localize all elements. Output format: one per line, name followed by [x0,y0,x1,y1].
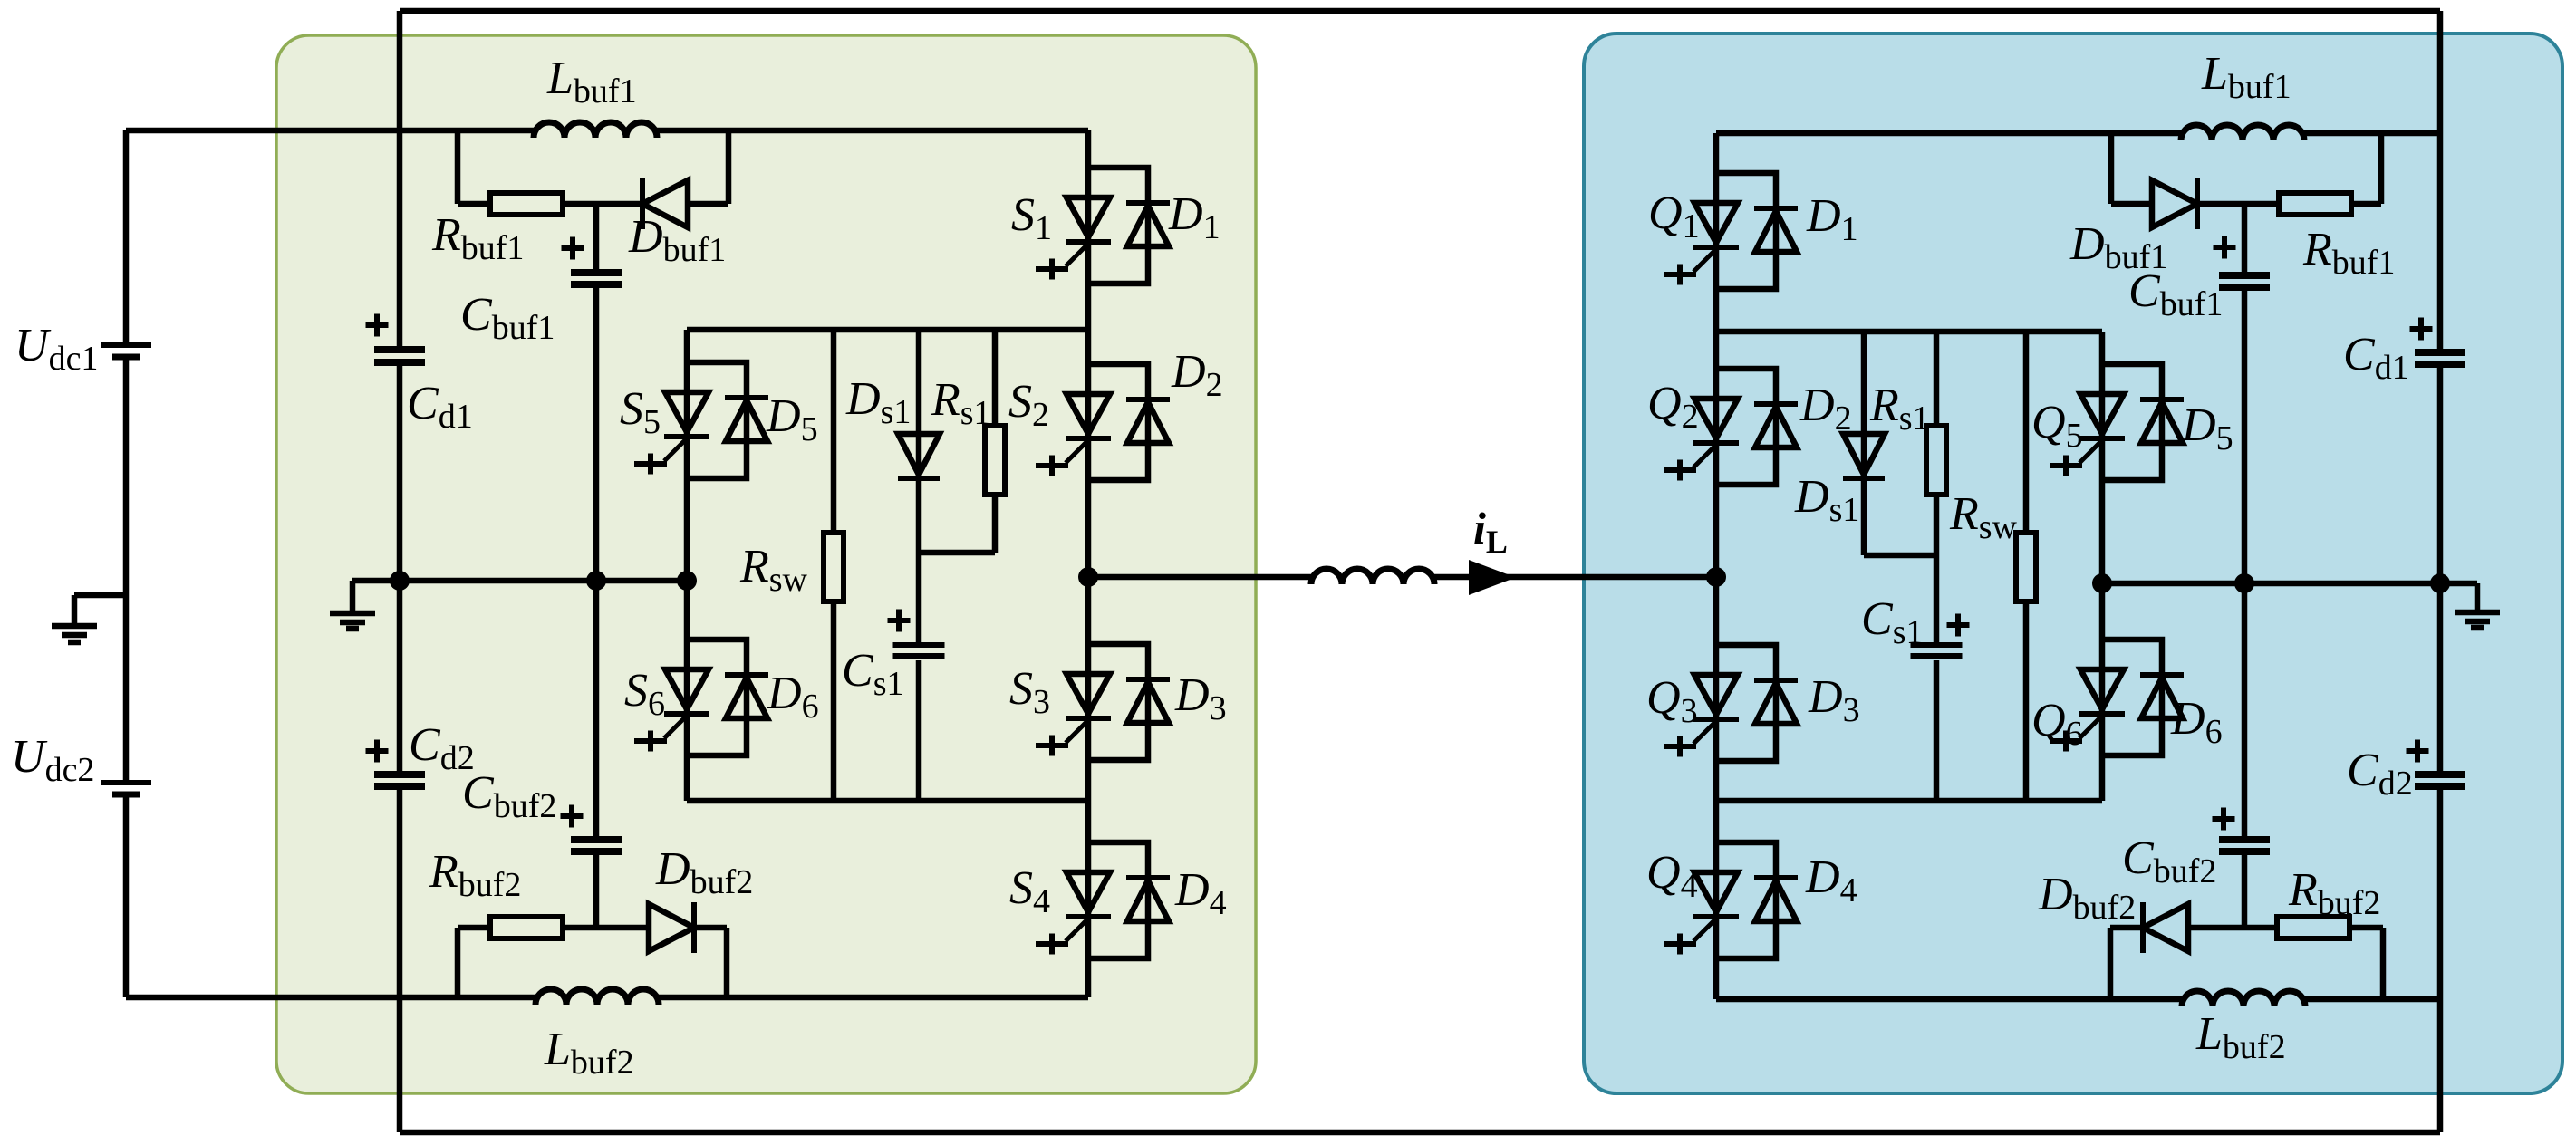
diode D_buf2 (right) [2140,902,2146,953]
ground (left mid rail) [330,611,375,617]
diode D6 (right) [2140,672,2184,678]
wire snubber row left-bottom [563,925,649,931]
wire S3 parallel branch [1088,644,1148,760]
node output (right bridge midpoint) [1706,567,1726,587]
diode D6 (left) [725,672,768,678]
svg-text:iL: iL [1473,503,1508,560]
wire C_buf1 lead (right) [2242,204,2248,272]
label + C_d1 (right) [2410,326,2433,332]
wire Q3 parallel branch [1716,645,1776,761]
wire Q5 parallel branch [2102,364,2162,480]
node C_d rail / mid rail (left) [390,571,410,591]
capacitor C_d2 (left) [374,771,425,778]
switch S6 [665,669,709,709]
capacitor C_d1 (right) [2415,349,2465,356]
node C_d rail / mid rail (right) [2430,573,2450,593]
diode D1 (left) [1126,200,1170,206]
wire S2 parallel branch [1088,364,1148,480]
wire ground tail mid-right [2440,581,2477,587]
wire S6 parallel branch [687,640,747,755]
converter box right (blue) [1584,34,2562,1093]
wire top bus left [126,128,534,134]
wire bottom bus right [1716,996,2182,1003]
diode D_buf2 (left) [691,902,697,953]
resistor R_sw (left) [824,533,844,601]
wire R_buf2 branch drop (left) [455,928,461,997]
capacitor C_buf1 (left) [571,269,622,276]
switch Q5 [2080,394,2124,434]
wire outer top bus [400,8,2440,14]
switch Q1 [1694,203,1738,243]
wire Q6 parallel branch [2102,640,2162,755]
resistor R_buf1 (left) [490,193,563,215]
switch S1 [1066,197,1110,237]
label + C_s1 (left) [888,618,911,623]
wire dc-link rail right (through C_d1/C_d2) [2437,11,2444,349]
label + C_buf2 (left) [561,813,584,819]
wire S5-S6 rail [684,330,690,801]
diode D1 (right) [1754,206,1798,211]
capacitor C_buf1 (right) [2219,272,2270,279]
svg-text:Udc2: Udc2 [11,731,94,789]
wire bridge rail left (S1-S4) [1085,130,1092,997]
wire R_buf1 to top bus (right) [2350,201,2381,207]
capacitor C_s1 (left) [893,642,945,648]
wire R_buf1 branch drop (left) [455,130,461,204]
wire U_dc1 rail [123,130,130,342]
svg-text:Udc1: Udc1 [14,320,98,378]
battery U_dc2 [101,780,151,785]
inductor L_buf1 (left) [534,122,657,138]
diode D3 (left) [1126,677,1170,682]
inductor i_L link [1311,569,1434,584]
wire inner box bottom rail (right) [1716,798,2102,804]
diode D_s1 (left) [898,434,940,475]
label + C_buf1 (right) [2214,245,2236,250]
wire snubber row left-top [563,201,644,207]
switch Q2 [1694,399,1738,438]
wire R_s1 line (right) [1934,332,1940,426]
capacitor C_s1 (right) [1911,642,1963,648]
diode D5 (right) [2140,397,2184,402]
switch Q6 [2080,669,2124,709]
wire D_s1 line (left) [916,330,922,642]
switch S2 [1066,394,1110,434]
wire mid rail left [352,578,687,584]
wire inner box top rail (left) [687,327,1088,333]
switch Q3 [1694,675,1738,715]
label + C_d2 (left) [366,748,389,754]
wire inner box bottom rail (left) [687,798,1088,804]
label i_L arrow [1469,560,1516,595]
node Q5-Q6 rail / mid rail (right) [2092,573,2112,593]
node output (left bridge midpoint) [1078,567,1098,587]
node C_buf rail / mid rail (left) [586,571,606,591]
wire R_sw line (right) [2023,332,2030,533]
wire mid rail right [2102,581,2440,587]
wire Q4 parallel branch [1716,842,1776,958]
wire inductor to right bridge [1434,574,1716,581]
wire Q2 parallel branch [1716,369,1776,485]
label + C_buf2 (right) [2213,816,2235,822]
wire D_buf1 to top bus (left) [688,201,728,207]
resistor R_s1 (right) [1926,426,1946,495]
diode D2 (right) [1754,401,1798,407]
diode D4 (right) [1754,875,1798,880]
wire top bus right [1716,130,2181,137]
capacitor C_d1 (left) [374,346,425,353]
wire outer bottom bus [400,1130,2440,1136]
battery U_dc1 [101,342,151,348]
node S5-S6 rail / mid rail (left) [677,571,697,591]
switch S3 [1066,674,1110,714]
resistor R_buf1 (right) [2279,193,2351,215]
wire R_s1 line (left) [992,330,999,426]
inductor L_buf2 (left) [535,989,659,1005]
wire ground tail mid-left [350,581,356,612]
resistor R_buf2 (right) [2277,917,2349,938]
switch Q4 [1694,872,1738,912]
capacitor C_d2 (right) [2415,771,2465,778]
wire S1 parallel branch [1088,168,1148,284]
wire S4 parallel branch [1088,842,1148,958]
label + C_d1 (left) [366,322,389,328]
wire D_buf2 branch drop (right) [2108,928,2114,999]
resistor R_buf2 (left) [490,917,563,938]
switch S4 [1066,872,1110,912]
diode D_buf1 (right) [2195,178,2200,229]
wire inner box top rail (right) [1716,329,2102,335]
resistor R_s1 (left) [985,426,1005,495]
wire Q1 parallel branch [1716,173,1776,289]
wire C_buf2 lead (right) [2242,583,2248,836]
wire R_sw line (left) [831,330,837,533]
switch S5 [665,392,709,432]
ground (external source) [52,623,97,630]
diode D_buf1 (left) [640,178,645,229]
capacitor C_buf2 (left) [571,836,622,843]
label + C_s1 (right) [1947,622,1970,628]
wire D_buf1 branch drop (right) [2108,133,2115,204]
wire Q5-Q6 rail [2099,332,2106,801]
wire dc-link rail left (through C_d1/C_d2) [397,11,403,346]
wire snubber row right-bottom [2188,925,2278,931]
converter box left (green) [276,35,1256,1093]
ground (right mid rail) [2455,610,2500,616]
diode D5 (left) [725,395,768,400]
wire D_buf2 to bottom bus (left) [694,925,727,931]
diode D_s1 (right) [1843,434,1885,475]
resistor R_sw (right) [2016,533,2036,601]
diode D4 (left) [1126,875,1170,880]
wire R_buf2 to bottom bus (right) [2349,925,2383,931]
wire ground tail U_dc [74,592,126,599]
wire C_buf1 lead (left) [593,204,600,270]
diode D3 (right) [1754,678,1798,683]
diode D2 (left) [1126,397,1170,402]
capacitor C_buf2 (right) [2219,836,2270,843]
wire C_buf2 lead (left) [593,581,600,836]
label + C_buf1 (left) [562,245,584,251]
inductor L_buf2 (right) [2182,991,2305,1006]
inductor L_buf1 (right) [2181,125,2304,140]
wire snubber row right-top [2197,201,2280,207]
wire bridge rail right (Q1-Q4) [1713,133,1720,999]
wire D_s1 line (right) [1861,332,1867,555]
wire S5 parallel branch [687,362,747,478]
wire bottom bus left [126,995,535,1001]
node C_buf rail / mid rail (right) [2234,573,2254,593]
wire output to inductor [1088,574,1311,581]
label + C_d2 (right) [2407,748,2429,754]
